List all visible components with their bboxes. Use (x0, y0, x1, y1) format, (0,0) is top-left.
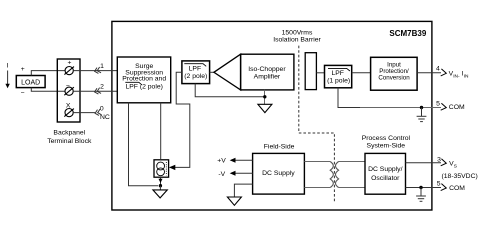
svg-text:Process Control: Process Control (362, 135, 411, 142)
wire +V (231, 159, 253, 161)
wire bar to LPF1 (316, 72, 324, 74)
wire transformer primary top (304, 161, 330, 163)
connector chevron pin 0 (94, 109, 101, 116)
wire dc supply ground (234, 184, 252, 197)
svg-text:3: 3 (437, 156, 441, 163)
svg-text:(1 pole): (1 pole) (327, 78, 350, 85)
svg-text:Protection and: Protection and (122, 76, 166, 83)
ground earth (supply common) (416, 196, 426, 201)
svg-text:+V: +V (217, 157, 226, 164)
wire transformer primary bottom (304, 187, 330, 189)
svg-text:Amplifier: Amplifier (254, 74, 281, 81)
label 1500Vrms Isolation Barrier (273, 30, 321, 44)
svg-text:-V: -V (218, 171, 225, 178)
barrier coupling bar (305, 53, 316, 90)
svg-text:1: 1 (100, 63, 104, 70)
node iso common junction (263, 95, 266, 98)
module outline SCM7B39 (112, 21, 432, 210)
svg-text:IN-: IN- (453, 74, 460, 80)
ground (field common) (153, 190, 167, 198)
svg-text:System-Side: System-Side (367, 143, 406, 150)
LPF 2 pole box (182, 61, 210, 84)
svg-text:Backpanel: Backpanel (53, 130, 85, 137)
label Process Control System-Side (362, 135, 411, 150)
svg-text:IN: IN (464, 74, 469, 80)
arrow pin 5 bottom (441, 184, 447, 191)
node COM junction (420, 106, 423, 109)
wire load- (31, 88, 65, 92)
screw terminal 3 (64, 109, 74, 117)
arrow pin 5 (441, 103, 447, 110)
isolation barrier dashed line (299, 46, 335, 202)
node COM bottom junction (419, 186, 422, 189)
node field common junction (159, 184, 162, 187)
wire COM junction to earth (421, 108, 423, 117)
dc supply oscillator box (365, 153, 406, 194)
wire surge box right drop into protector (160, 103, 162, 160)
label Backpanel Terminal Block (47, 130, 92, 145)
label VS (449, 161, 457, 170)
svg-text:+: + (68, 60, 72, 67)
transformer T1 primary winding (330, 162, 333, 188)
screw terminal 1 (64, 67, 74, 75)
wire COM rail (360, 107, 441, 109)
svg-text:S: S (454, 164, 457, 170)
svg-text:LPF (2 pole): LPF (2 pole) (125, 84, 162, 91)
svg-text:Oscillator: Oscillator (371, 175, 400, 182)
wire junction to ground (159, 186, 161, 190)
svg-text:+: + (21, 66, 25, 73)
transformer T1 secondary winding (336, 162, 339, 188)
svg-text:NC: NC (100, 114, 110, 121)
wire surge box left drop (129, 103, 159, 186)
svg-text:0: 0 (100, 106, 104, 113)
ground earth (input common) (417, 116, 427, 121)
svg-text:I: I (7, 62, 9, 69)
LPF 1 pole box (325, 65, 352, 87)
wire 3 NC stub (73, 112, 95, 114)
label VIN- IIN (449, 70, 469, 79)
current arrow I (5, 62, 9, 88)
wire protector bottom (160, 177, 162, 186)
arrow pin 3 (441, 159, 447, 166)
svg-text:5: 5 (437, 180, 441, 187)
surge protector device (154, 160, 169, 177)
connector chevron pin 2 (94, 88, 101, 95)
svg-text:LPF: LPF (189, 66, 201, 73)
op-amp triangle iso-chopper (214, 54, 241, 90)
wire 2 terminal to surge box (73, 90, 117, 92)
arrowhead protector bottom (159, 179, 163, 183)
wire COM bottom to earth (420, 188, 422, 196)
arrowhead +V (230, 158, 236, 163)
wire -V (231, 172, 253, 174)
wire pin 3 (406, 162, 442, 164)
svg-text:Conversion: Conversion (378, 74, 410, 81)
wire transformer secondary top (339, 161, 365, 163)
arrowhead -V (230, 171, 236, 176)
surge suppression box (117, 57, 170, 103)
svg-text:COM: COM (449, 104, 465, 111)
svg-text:Field-Side: Field-Side (264, 144, 295, 151)
svg-text:Iso-Chopper: Iso-Chopper (248, 66, 286, 73)
svg-text:LOAD: LOAD (21, 80, 40, 87)
arrowhead into protector (169, 165, 175, 170)
connector chevron pin 1 (94, 67, 101, 74)
wire LPF2 to amplifier (210, 71, 215, 73)
wire load+ (31, 71, 65, 76)
svg-text:Isolation Barrier: Isolation Barrier (273, 37, 321, 44)
svg-text:(2 pole): (2 pole) (184, 73, 207, 80)
arrow pin 4 (441, 69, 447, 76)
svg-text:Terminal Block: Terminal Block (47, 138, 92, 145)
dc supply box (253, 153, 305, 194)
svg-text:COM: COM (449, 185, 465, 192)
ground (iso-chopper common) (258, 104, 272, 112)
ground (dc supply) (227, 197, 241, 205)
svg-text:−: − (21, 90, 25, 97)
svg-text:2: 2 (100, 83, 104, 90)
svg-text:LPF: LPF (331, 70, 343, 77)
svg-text:DC Supply: DC Supply (262, 170, 295, 177)
wire pin 4 (417, 72, 441, 74)
wire transformer secondary bottom (339, 187, 365, 189)
svg-text:DC Supply/: DC Supply/ (368, 166, 402, 173)
wire LPF1 bottom drop (338, 88, 360, 108)
svg-text:4: 4 (436, 65, 440, 72)
svg-text:5: 5 (436, 100, 440, 107)
svg-text:SCM7B39: SCM7B39 (389, 29, 426, 38)
svg-text:(18-35VDC): (18-35VDC) (442, 173, 478, 180)
wire 1 terminal to surge box (73, 70, 117, 72)
wire LPF1 to input box (352, 72, 371, 74)
wire LPF2 bottom to iso common (195, 84, 265, 97)
input protection box (371, 57, 418, 90)
wire pin 5 bottom (406, 187, 442, 189)
svg-text:1500Vrms: 1500Vrms (282, 30, 313, 37)
load box LOAD (16, 76, 45, 88)
wire feedback LPF2 left to protector (175, 72, 190, 167)
screw terminal 2 (64, 87, 74, 95)
iso-chopper amplifier box (241, 54, 294, 90)
terminal block (57, 59, 80, 122)
wire iso-chopper ground drop (264, 90, 266, 104)
